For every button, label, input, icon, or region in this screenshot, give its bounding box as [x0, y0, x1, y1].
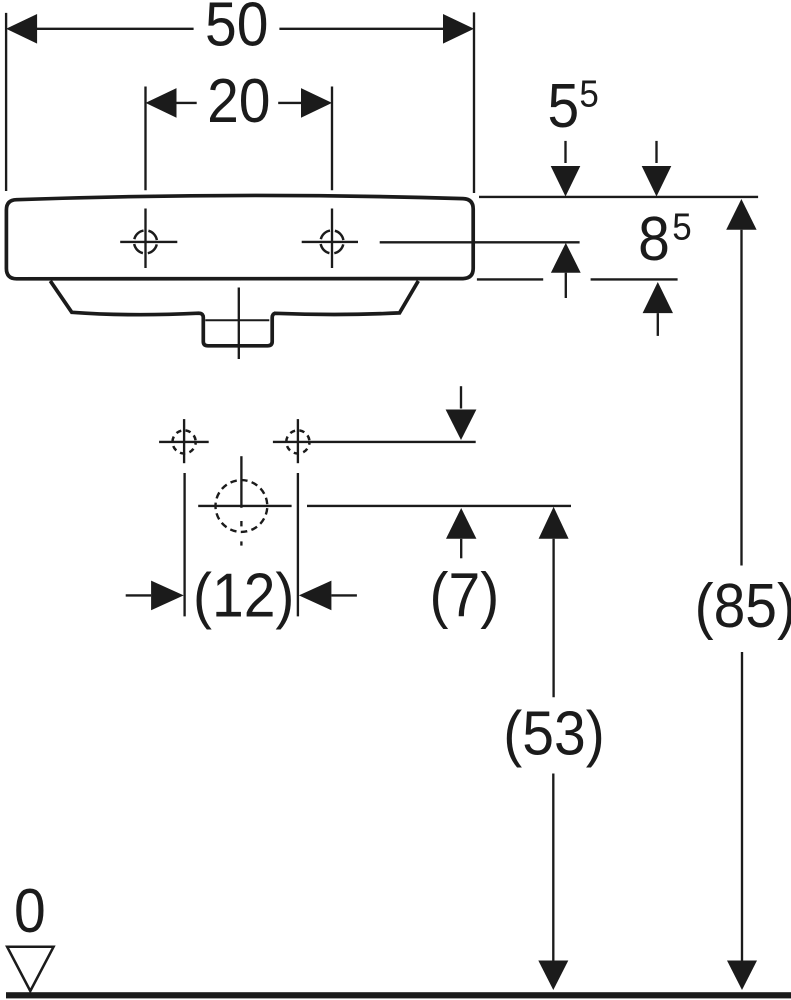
- svg-text:5: 5: [579, 72, 598, 115]
- dimension (85): upper tail line: [740, 230, 742, 566]
- left faucet hole dashed circle: [134, 230, 157, 253]
- bottom view: right fixing hole horizontal line: [273, 441, 476, 443]
- top surface reference line: [479, 196, 758, 198]
- dimension (7): up arrowhead: [446, 508, 476, 539]
- dimension (53): upper tail line: [552, 539, 554, 697]
- floor datum triangle: [7, 947, 54, 991]
- dimension (12): right extension line: [297, 473, 299, 616]
- faucet hole height reference line: [380, 241, 580, 243]
- waste outlet horizontal line right segment: [307, 505, 571, 507]
- dimension 5.5: down arrowhead: [551, 166, 581, 197]
- label 8 superscript 5: [638, 204, 692, 274]
- dimension (7): down arrowhead: [446, 410, 477, 441]
- bottom view: right fixing hole dashed circle: [286, 430, 309, 453]
- svg-text:5: 5: [672, 205, 691, 248]
- washbasin slab outline (front view): [6, 195, 473, 278]
- svg-text:(85): (85): [695, 571, 791, 641]
- svg-text:50: 50: [205, 0, 268, 59]
- svg-text:5: 5: [548, 71, 580, 141]
- svg-text:(53): (53): [503, 698, 604, 768]
- dimension 20: dimension line right segment: [278, 102, 301, 104]
- right faucet hole horizontal center line: [302, 241, 358, 243]
- dimension (85): lower line: [741, 652, 743, 961]
- dimension (85): up arrowhead at top: [726, 199, 756, 230]
- svg-text:20: 20: [207, 66, 270, 136]
- bottom view: left fixing hole vertical line: [183, 419, 185, 463]
- dimension 20: left extension line: [144, 87, 146, 191]
- dimension 50: right arrowhead: [443, 14, 474, 44]
- waste outlet vertical center line: [240, 456, 242, 508]
- dimension (7): down arrow tail: [460, 386, 462, 408]
- waste outlet vertical center line dash 2: [240, 541, 242, 545]
- label 5 superscript 5: [548, 71, 599, 141]
- dimension 50: dimension line left segment: [37, 28, 194, 30]
- washbasin bowl and drain trap outline: [50, 281, 418, 346]
- right faucet hole vertical center line: [331, 209, 333, 269]
- dimension 5.5: up arrow tail: [565, 273, 567, 298]
- dimension (12): left extension line: [183, 473, 185, 616]
- dimension 20: right extension line: [331, 87, 333, 191]
- right faucet hole dashed circle: [321, 230, 344, 253]
- dimension 50: dimension line right segment: [279, 28, 443, 30]
- bottom view: left fixing hole dashed circle: [173, 430, 196, 453]
- dimension 50: left arrowhead: [6, 14, 37, 44]
- dimension 50: left extension line: [5, 13, 7, 191]
- svg-text:(12): (12): [193, 560, 294, 630]
- dimension 8.5: down arrow tail: [655, 141, 657, 163]
- dimension (85): down arrowhead at floor: [727, 961, 757, 991]
- dimension (12): left arrow tail: [126, 594, 151, 596]
- dimension (12): left arrowhead: [151, 581, 184, 611]
- left faucet hole vertical center line: [144, 209, 146, 269]
- bottom view: waste outlet dashed circle: [216, 480, 268, 532]
- dimension (53): up arrowhead: [539, 507, 569, 539]
- slab bottom reference line right segment: [591, 278, 678, 280]
- svg-text:8: 8: [638, 204, 670, 274]
- floor line: [6, 992, 791, 998]
- dimension 20: left arrowhead: [146, 88, 177, 118]
- bottom view: left fixing hole horizontal line: [159, 441, 209, 443]
- left faucet hole horizontal center line: [120, 241, 177, 243]
- dimension 8.5: up arrow tail: [657, 313, 659, 336]
- dimension 5.5: up arrowhead: [551, 243, 581, 273]
- dimension 50: right extension line: [473, 12, 475, 193]
- bottom view: right fixing hole vertical line: [297, 419, 299, 463]
- dimension (12): right arrow tail: [331, 594, 357, 596]
- waste outlet horizontal line left segment: [198, 505, 291, 507]
- dimension 8.5: up arrowhead: [643, 282, 673, 313]
- dimension 5.5: down arrow tail: [564, 141, 566, 163]
- svg-text:0: 0: [14, 876, 46, 946]
- dimension (12): right arrowhead: [299, 581, 332, 611]
- dimension 20: dimension line left segment: [177, 102, 197, 104]
- dimension 20: right arrowhead: [301, 88, 332, 118]
- dimension (53): down arrowhead at floor: [538, 961, 568, 991]
- drain trap inner lip line: [205, 319, 269, 321]
- drain center line: [238, 288, 240, 360]
- dimension (53): lower line: [552, 774, 554, 961]
- waste outlet vertical center line dash 1: [240, 521, 242, 526]
- slab bottom reference line left segment: [477, 278, 543, 280]
- dimension (7): up arrow tail: [460, 539, 462, 559]
- dimension 8.5: down arrowhead: [642, 166, 672, 197]
- svg-text:(7): (7): [430, 560, 500, 630]
